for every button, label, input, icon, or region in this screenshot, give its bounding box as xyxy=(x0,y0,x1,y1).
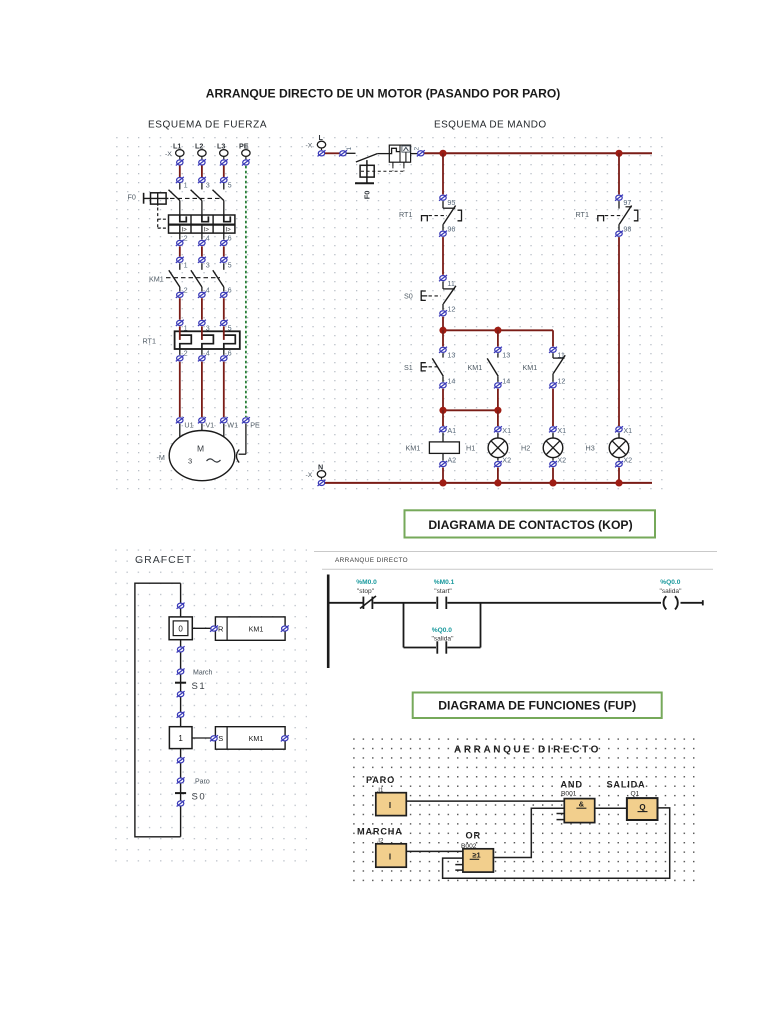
svg-text:B001: B001 xyxy=(561,790,577,797)
RT1 heater meander pole2 xyxy=(202,335,214,349)
wire L1 feeder xyxy=(179,156,181,189)
node KM1 pin1 xyxy=(176,257,188,270)
svg-text:0: 0 xyxy=(178,625,183,634)
svg-text:RT1: RT1 xyxy=(576,210,589,219)
AND input stub 3 xyxy=(557,813,565,815)
svg-text:3: 3 xyxy=(206,181,210,190)
rung wire middle xyxy=(373,602,436,604)
transition S0 bar xyxy=(175,792,186,794)
wire H3 to bottom rail xyxy=(618,468,620,483)
svg-text:-M: -M xyxy=(157,453,165,462)
svg-text:V1: V1 xyxy=(205,421,214,430)
svg-text:ESQUEMA DE MANDO: ESQUEMA DE MANDO xyxy=(434,120,547,131)
wire motor leads xyxy=(180,424,224,448)
svg-text:4: 4 xyxy=(206,234,210,243)
wire OR to AND xyxy=(493,808,564,857)
node RT1 pin1 xyxy=(176,320,188,333)
node RT1 pin97 xyxy=(615,195,631,207)
motor tilde xyxy=(207,459,221,462)
node motor V1 xyxy=(198,417,214,429)
breaker magnetic I> pole1 xyxy=(180,225,187,234)
rung wire after coil xyxy=(681,600,703,605)
node F0 pin1 xyxy=(339,147,353,157)
wire bottom rail N xyxy=(322,482,653,484)
svg-text:KM1: KM1 xyxy=(149,275,164,284)
svg-text:4: 4 xyxy=(206,349,210,358)
terminal -X L xyxy=(306,133,326,150)
wire KM1 to RT1 L1 xyxy=(179,298,181,320)
svg-text:1: 1 xyxy=(346,147,353,151)
svg-text:14: 14 xyxy=(447,377,455,386)
wire step0 to action R xyxy=(192,627,215,629)
rung wire left xyxy=(329,602,363,604)
wire step1 to action S xyxy=(192,737,215,739)
svg-text:I: I xyxy=(389,801,391,810)
svg-text:H2: H2 xyxy=(521,444,530,453)
node L rail conn xyxy=(318,150,326,156)
node RT1 pin5 xyxy=(220,320,232,333)
node action S left xyxy=(210,735,218,741)
svg-text:1: 1 xyxy=(178,734,183,743)
pushbutton S0 NC contact xyxy=(421,282,456,310)
panel top border xyxy=(314,551,717,553)
wire RT1 to motor W xyxy=(223,362,225,417)
junction rail2 right xyxy=(494,407,501,414)
node action R right xyxy=(281,626,289,632)
OR block B002 xyxy=(463,849,494,872)
action block R KM1 xyxy=(215,617,285,640)
svg-text:96: 96 xyxy=(447,225,455,234)
branch rung wire left xyxy=(404,647,437,649)
node motor PE xyxy=(242,417,260,429)
input block MARCHA I2 xyxy=(376,844,407,867)
breaker F0 blade xyxy=(356,154,389,162)
breaker F0 pole 1 contact xyxy=(169,190,180,201)
svg-text:KM1: KM1 xyxy=(406,444,421,453)
breaker F0 trip unit box xyxy=(169,215,235,233)
RT1 heater meander pole1 xyxy=(180,335,192,349)
svg-text:13: 13 xyxy=(502,351,510,360)
label %Q0.0 branch xyxy=(432,627,455,643)
breaker F0 handle symbol xyxy=(143,193,168,206)
svg-text:X2: X2 xyxy=(502,455,511,464)
wire KM1 to RT1 L3 xyxy=(223,298,225,320)
svg-text:ARRANQUE DIRECTO: ARRANQUE DIRECTO xyxy=(335,557,408,564)
contact NO salida xyxy=(437,641,446,653)
node KM1aux pin14 xyxy=(494,377,510,389)
svg-text:S0: S0 xyxy=(192,792,207,803)
svg-text:-X: -X xyxy=(306,472,313,479)
svg-text:PE: PE xyxy=(250,421,260,430)
terminal -X L3 xyxy=(217,142,228,157)
svg-text:DIAGRAMA DE FUNCIONES (FUP): DIAGRAMA DE FUNCIONES (FUP) xyxy=(438,699,636,713)
node below step0 xyxy=(177,646,185,652)
thermal contact RT1 97-98 xyxy=(598,201,638,230)
wire rail down to RT1 95 xyxy=(442,153,444,194)
svg-text:M: M xyxy=(197,444,204,454)
wire RT1 to motor U xyxy=(179,362,181,417)
node below transition S0 xyxy=(177,800,185,806)
node N rail conn xyxy=(318,480,326,486)
node breaker out 2 xyxy=(176,240,184,246)
label %M0.0 xyxy=(356,579,377,595)
wire into RT1 box x3 red stubs xyxy=(180,326,224,340)
svg-text:KM1: KM1 xyxy=(249,625,264,634)
svg-text:%Q0.0: %Q0.0 xyxy=(660,579,680,586)
thermal relay RT1 box xyxy=(175,331,240,349)
svg-text:X1: X1 xyxy=(502,426,511,435)
wire KM1aux down to H1 xyxy=(497,410,499,426)
svg-text:1: 1 xyxy=(184,181,188,190)
junction top rail at KM1 branch xyxy=(439,150,446,157)
node RT1 pin96 xyxy=(439,225,455,237)
svg-text:H1: H1 xyxy=(466,444,475,453)
svg-text:Q1: Q1 xyxy=(631,790,640,797)
node PE conn row1 xyxy=(242,159,250,165)
panel caption underline xyxy=(322,568,713,570)
rung wire right xyxy=(447,602,661,604)
node motor W1 xyxy=(220,417,238,429)
svg-text:3: 3 xyxy=(188,456,192,465)
svg-text:S0: S0 xyxy=(404,292,413,301)
wire PE to motor xyxy=(237,424,246,463)
svg-text:ESQUEMA DE FUERZA: ESQUEMA DE FUERZA xyxy=(148,120,267,131)
svg-text:98: 98 xyxy=(623,225,631,234)
svg-text:6: 6 xyxy=(228,286,232,295)
junction bottom rail KM1 xyxy=(439,479,446,486)
wire RT1 out leads xyxy=(180,349,224,355)
svg-text:MARCHA: MARCHA xyxy=(357,827,403,837)
svg-text:A2: A2 xyxy=(447,455,456,464)
svg-text:ARRANQUE DIRECTO: ARRANQUE DIRECTO xyxy=(454,745,601,756)
AND input stub 4 xyxy=(557,819,565,821)
wire 98 down to H3 xyxy=(618,237,620,426)
wire PE green dotted xyxy=(245,156,247,417)
node KM1 pin5 xyxy=(220,257,232,270)
svg-text:AND: AND xyxy=(561,780,583,790)
node RT1 out6 xyxy=(220,355,228,361)
wire L2 feeder xyxy=(201,156,203,189)
wire breaker to KM1 L3 xyxy=(223,246,225,256)
svg-text:12: 12 xyxy=(447,305,455,314)
svg-text:I>: I> xyxy=(226,227,232,233)
pushbutton S1 NO contact xyxy=(421,353,443,382)
svg-text:X1: X1 xyxy=(557,426,566,435)
junction bottom rail H1 xyxy=(494,479,501,486)
svg-text:L: L xyxy=(319,133,324,142)
node S1 pin14 xyxy=(439,377,455,389)
svg-text:1: 1 xyxy=(184,260,188,269)
svg-text:-X: -X xyxy=(306,143,313,150)
svg-text:%M0.0: %M0.0 xyxy=(356,579,377,586)
wire pole3 below box xyxy=(224,233,232,242)
svg-text:RT1: RT1 xyxy=(143,337,156,346)
OR input stub 4 xyxy=(455,869,463,871)
node KM1 pin3 xyxy=(198,257,210,270)
svg-text:%M0.1: %M0.1 xyxy=(434,579,455,586)
output block SALIDA Q1 xyxy=(627,798,658,820)
contact KM1 aux NO xyxy=(487,353,498,382)
coil salida xyxy=(664,596,678,609)
node L3 conn row1 xyxy=(220,159,228,165)
node H2 X1 xyxy=(549,426,566,435)
wire L to F0 xyxy=(325,152,340,154)
contactor KM1 pole3 xyxy=(213,263,224,291)
wire MARCHA to OR xyxy=(406,850,463,852)
svg-text:March: March xyxy=(193,670,213,677)
wire drops from mid rail xyxy=(443,330,553,346)
wire pole2 to breaker box xyxy=(201,201,203,216)
lamp H2 xyxy=(543,433,563,461)
wire H2 to bottom rail xyxy=(552,468,554,483)
node H1 X1 xyxy=(494,426,511,435)
svg-text:PARO: PARO xyxy=(366,775,395,785)
svg-text:2: 2 xyxy=(184,349,188,358)
svg-text:11: 11 xyxy=(447,279,454,288)
wire pole2 below box xyxy=(202,233,210,242)
svg-text:U1: U1 xyxy=(184,421,193,430)
breaker F0 linkage dashes xyxy=(170,197,220,199)
wire H1 to bottom rail xyxy=(497,468,499,483)
wire pole3 to breaker box xyxy=(223,201,225,216)
svg-text:F0: F0 xyxy=(362,191,371,200)
junction mid rail KM1 aux xyxy=(494,327,501,334)
input block PARO I1 xyxy=(376,793,407,816)
svg-text:PE: PE xyxy=(239,142,249,151)
junction rail2 left xyxy=(439,407,446,414)
junction top rail at H3 branch xyxy=(615,150,622,157)
wire rail2 xyxy=(443,409,498,411)
node F0 pin2 xyxy=(414,147,425,157)
wire pole1 to breaker box xyxy=(179,201,181,216)
contactor KM1 linkage dashes xyxy=(166,277,220,279)
breaker F0 pole 2 contact xyxy=(191,190,202,201)
svg-text:14: 14 xyxy=(502,377,510,386)
svg-text:L2: L2 xyxy=(195,142,203,151)
junction mid rail S1 xyxy=(439,327,446,334)
branch rung wire right xyxy=(447,647,480,649)
grafcet loop wire xyxy=(135,583,181,837)
breaker F0 box xyxy=(389,145,410,162)
node below transition S1 xyxy=(177,691,185,697)
label %Q0.0 coil xyxy=(660,579,683,595)
wire KM1nc down to H2 xyxy=(552,389,554,426)
node L2 conn row1 xyxy=(198,159,206,165)
wire pole1 below box xyxy=(180,233,188,242)
node H2 X2 xyxy=(549,455,566,467)
svg-text:R: R xyxy=(218,625,224,634)
node above step0 xyxy=(177,603,185,609)
svg-text:5: 5 xyxy=(228,260,232,269)
contactor KM1 pole1 xyxy=(169,263,180,291)
svg-text:L3: L3 xyxy=(217,142,225,151)
svg-text:2: 2 xyxy=(414,147,421,151)
wire coil to bottom rail xyxy=(442,468,444,483)
svg-text:KM1: KM1 xyxy=(523,363,538,372)
svg-text:Paro: Paro xyxy=(195,779,210,786)
svg-text:2: 2 xyxy=(184,234,188,243)
node KM1 out4 xyxy=(198,292,206,298)
node S0 pin11 xyxy=(439,275,455,288)
transition S1 bar xyxy=(175,682,186,684)
svg-text:2: 2 xyxy=(184,286,188,295)
node action R left xyxy=(210,626,218,632)
label %M0.1 xyxy=(434,579,455,595)
node KM1 out6 xyxy=(220,292,228,298)
wire S1 to rail2 xyxy=(442,389,444,411)
svg-text:W1: W1 xyxy=(227,421,238,430)
motor M1 circle xyxy=(169,431,235,481)
svg-text:F0: F0 xyxy=(128,193,136,202)
svg-text:"stop": "stop" xyxy=(357,588,375,595)
node KM1nc pin12 xyxy=(549,377,565,389)
terminal -X PE xyxy=(239,142,250,157)
svg-text:5: 5 xyxy=(228,181,232,190)
lamp H1 xyxy=(488,433,508,461)
svg-text:S1: S1 xyxy=(404,363,413,372)
step 0 initial xyxy=(169,617,192,640)
node breaker out 4 xyxy=(198,240,206,246)
svg-text:"salida": "salida" xyxy=(660,588,683,595)
wire KM1 to RT1 L2 xyxy=(201,298,203,320)
svg-text:"salida": "salida" xyxy=(432,635,455,642)
node F0 pin1 xyxy=(176,177,188,190)
node F0 pin5 xyxy=(220,177,232,190)
AND block B001 xyxy=(564,799,594,823)
svg-text:Q: Q xyxy=(639,803,645,812)
svg-text:3: 3 xyxy=(206,260,210,269)
node above step1 xyxy=(177,712,185,718)
node above transition S0 xyxy=(177,777,185,783)
dotted grid: main schematic area xyxy=(113,133,665,497)
node coil A2 xyxy=(439,455,456,467)
node coil A1 xyxy=(439,426,456,435)
terminal -X L1 xyxy=(165,142,184,159)
fuse F0 body xyxy=(355,160,374,183)
node KM1 out2 xyxy=(176,292,184,298)
svg-text:%Q0.0: %Q0.0 xyxy=(432,627,452,634)
svg-text:OR: OR xyxy=(466,830,481,840)
svg-text:KM1: KM1 xyxy=(468,363,483,372)
breaker thermal hook pole1 xyxy=(180,215,187,222)
ladder left rail xyxy=(327,575,330,669)
svg-text:12: 12 xyxy=(557,377,565,386)
node KM1aux pin13 xyxy=(494,347,510,360)
breaker thermal hook pole2 xyxy=(202,215,209,222)
node RT1 pin98 xyxy=(615,225,631,237)
svg-text:I>: I> xyxy=(204,227,210,233)
svg-text:GRAFCET: GRAFCET xyxy=(135,554,192,566)
svg-text:95: 95 xyxy=(447,198,455,207)
RT1 heater meander pole3 xyxy=(224,335,236,349)
node H3 X2 xyxy=(615,455,632,467)
svg-text:RT1: RT1 xyxy=(399,210,412,219)
node S1 pin13 xyxy=(439,347,455,360)
junction bottom rail H3 xyxy=(615,479,622,486)
node action S right xyxy=(281,735,289,741)
svg-text:"start": "start" xyxy=(434,588,452,595)
wire PARO to AND xyxy=(406,800,564,802)
wire top rail xyxy=(424,152,652,154)
step 1 xyxy=(169,727,192,749)
wire RT1 to motor V xyxy=(201,362,203,417)
breaker magnetic I> pole2 xyxy=(202,225,209,234)
coil KM1 xyxy=(429,433,459,461)
lamp H3 xyxy=(609,433,629,461)
svg-text:KM1: KM1 xyxy=(249,734,264,743)
node F0 pin3 xyxy=(198,177,210,190)
wire KM1aux to rail2 xyxy=(497,389,499,411)
node S0 pin12 xyxy=(439,305,455,317)
wire S0 to mid rail xyxy=(442,317,444,331)
svg-text:DIAGRAMA DE CONTACTOS (KOP): DIAGRAMA DE CONTACTOS (KOP) xyxy=(428,518,632,532)
node RT1 pin95 xyxy=(439,195,455,207)
svg-text:SALIDA: SALIDA xyxy=(607,780,646,790)
svg-text:4: 4 xyxy=(206,286,210,295)
branch vertical right xyxy=(480,603,482,648)
svg-text:ARRANQUE DIRECTO DE UN MOTOR (: ARRANQUE DIRECTO DE UN MOTOR (PASANDO PO… xyxy=(206,87,561,101)
svg-text:X1: X1 xyxy=(623,426,632,435)
contactor KM1 pole2 xyxy=(191,263,202,291)
wire rail down to RT1 97 xyxy=(618,153,620,194)
svg-text:≥1: ≥1 xyxy=(472,850,480,859)
breaker thermal hook pole3 xyxy=(224,215,231,222)
wire F0 box out xyxy=(411,153,418,155)
node above transition S1 xyxy=(177,669,185,675)
thermal contact RT1 95-96 xyxy=(422,201,462,230)
node RT1 out4 xyxy=(198,355,206,361)
node H3 X1 xyxy=(615,426,632,435)
breaker F0 pole 3 contact xyxy=(213,190,224,201)
dotted grid: FUP area xyxy=(352,737,696,884)
svg-text:-X: -X xyxy=(165,151,172,158)
OR input stub 3 xyxy=(455,864,463,866)
node H1 X2 xyxy=(494,455,511,467)
svg-text:97: 97 xyxy=(623,198,631,207)
node below step1 xyxy=(177,757,185,763)
svg-text:N: N xyxy=(318,463,323,472)
node L1 conn row1 xyxy=(176,159,184,165)
svg-text:6: 6 xyxy=(228,349,232,358)
wire AND to SALIDA xyxy=(595,807,627,809)
wire 96 to S0 xyxy=(442,237,444,275)
wire SALIDA feedback to OR xyxy=(443,808,670,878)
terminal -X L2 xyxy=(195,142,206,157)
svg-text:S: S xyxy=(218,734,223,743)
wire breaker to KM1 L2 xyxy=(201,246,203,256)
contact KM1 NC aux xyxy=(553,353,565,382)
svg-text:S1: S1 xyxy=(192,681,207,692)
node breaker out 6 xyxy=(220,240,228,246)
svg-text:6: 6 xyxy=(228,234,232,243)
node KM1nc pin11 xyxy=(549,347,565,360)
svg-text:L1: L1 xyxy=(173,142,181,151)
wire mid rail xyxy=(443,329,553,331)
svg-text:&: & xyxy=(579,800,585,809)
action block S KM1 xyxy=(215,727,285,750)
node RT1 pin3 xyxy=(198,320,210,333)
node motor U1 xyxy=(176,417,194,429)
svg-text:H3: H3 xyxy=(586,444,595,453)
svg-text:X2: X2 xyxy=(557,455,566,464)
wire breaker to KM1 L1 xyxy=(179,246,181,256)
contact NO start xyxy=(437,597,446,609)
dotted grid: grafcet area xyxy=(109,545,307,863)
breaker magnetic I> pole3 xyxy=(224,225,231,234)
svg-text:A1: A1 xyxy=(447,426,456,435)
svg-text:13: 13 xyxy=(447,351,455,360)
breaker F0 handle dashed link xyxy=(158,208,169,229)
